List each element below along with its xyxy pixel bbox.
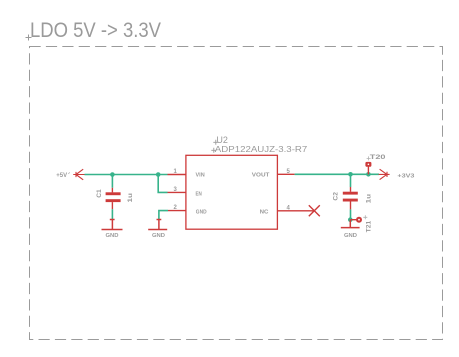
junction at C1 (110, 172, 115, 177)
svg-text:VOUT: VOUT (252, 173, 270, 179)
wire +5V to VIN (net) (85, 174, 168, 176)
svg-text:GND: GND (106, 233, 119, 239)
svg-text:1u: 1u (127, 193, 134, 203)
pin 3 EN (168, 187, 203, 197)
svg-text:GND: GND (196, 210, 207, 216)
capacitor C2 (333, 174, 373, 209)
svg-text:GND: GND (344, 233, 357, 239)
svg-text:ADP122AUJZ-3.3-R7: ADP122AUJZ-3.3-R7 (215, 144, 308, 154)
test point T21 (350, 215, 372, 232)
junction at T20 (366, 172, 371, 177)
IC U2 body (186, 155, 278, 229)
wire GND pin2 branch (159, 211, 168, 220)
test point T20 (365, 154, 386, 175)
IC U2 refdes label (213, 135, 228, 145)
svg-text:C2: C2 (333, 192, 340, 201)
svg-text:1u: 1u (366, 194, 373, 204)
ground GND at pin2 (148, 220, 167, 240)
pin 1 VIN (168, 169, 206, 179)
sheet title LDO 5V -> 3.3V (26, 19, 162, 42)
junction at T21 (348, 217, 353, 222)
ground GND at C2 (341, 220, 360, 239)
no-connect X on pin 4 (309, 205, 320, 216)
ground GND at C1 (102, 220, 123, 240)
IC U2 value label ADP122AUJZ-3.3-R7 (211, 144, 307, 154)
svg-text:T20: T20 (370, 154, 386, 161)
svg-text:LDO 5V -> 3.3V: LDO 5V -> 3.3V (30, 19, 161, 42)
svg-text:C1: C1 (96, 189, 103, 198)
svg-text:VIN: VIN (196, 173, 206, 179)
wire VOUT net (295, 173, 379, 175)
junction at C2 (348, 172, 353, 177)
pin 2 GND (168, 205, 207, 216)
svg-text:GND: GND (152, 233, 165, 239)
wire C2 to ground (350, 209, 352, 219)
frame border (dashed) (30, 47, 443, 340)
supply +5V (56, 169, 84, 180)
svg-text:+5V: +5V (56, 173, 67, 179)
svg-text:+3V3: +3V3 (397, 173, 414, 179)
svg-text:NC: NC (260, 210, 269, 216)
capacitor C1 (96, 175, 134, 210)
pin 4 NC (260, 206, 315, 216)
wire C1 to ground (111, 209, 113, 219)
junction at EN tee (156, 172, 161, 177)
svg-text:EN: EN (196, 191, 203, 197)
wire EN branch (158, 175, 167, 193)
supply +3V3 (379, 169, 415, 179)
svg-text:T21: T21 (366, 220, 373, 232)
pin 5 VOUT (252, 169, 295, 179)
